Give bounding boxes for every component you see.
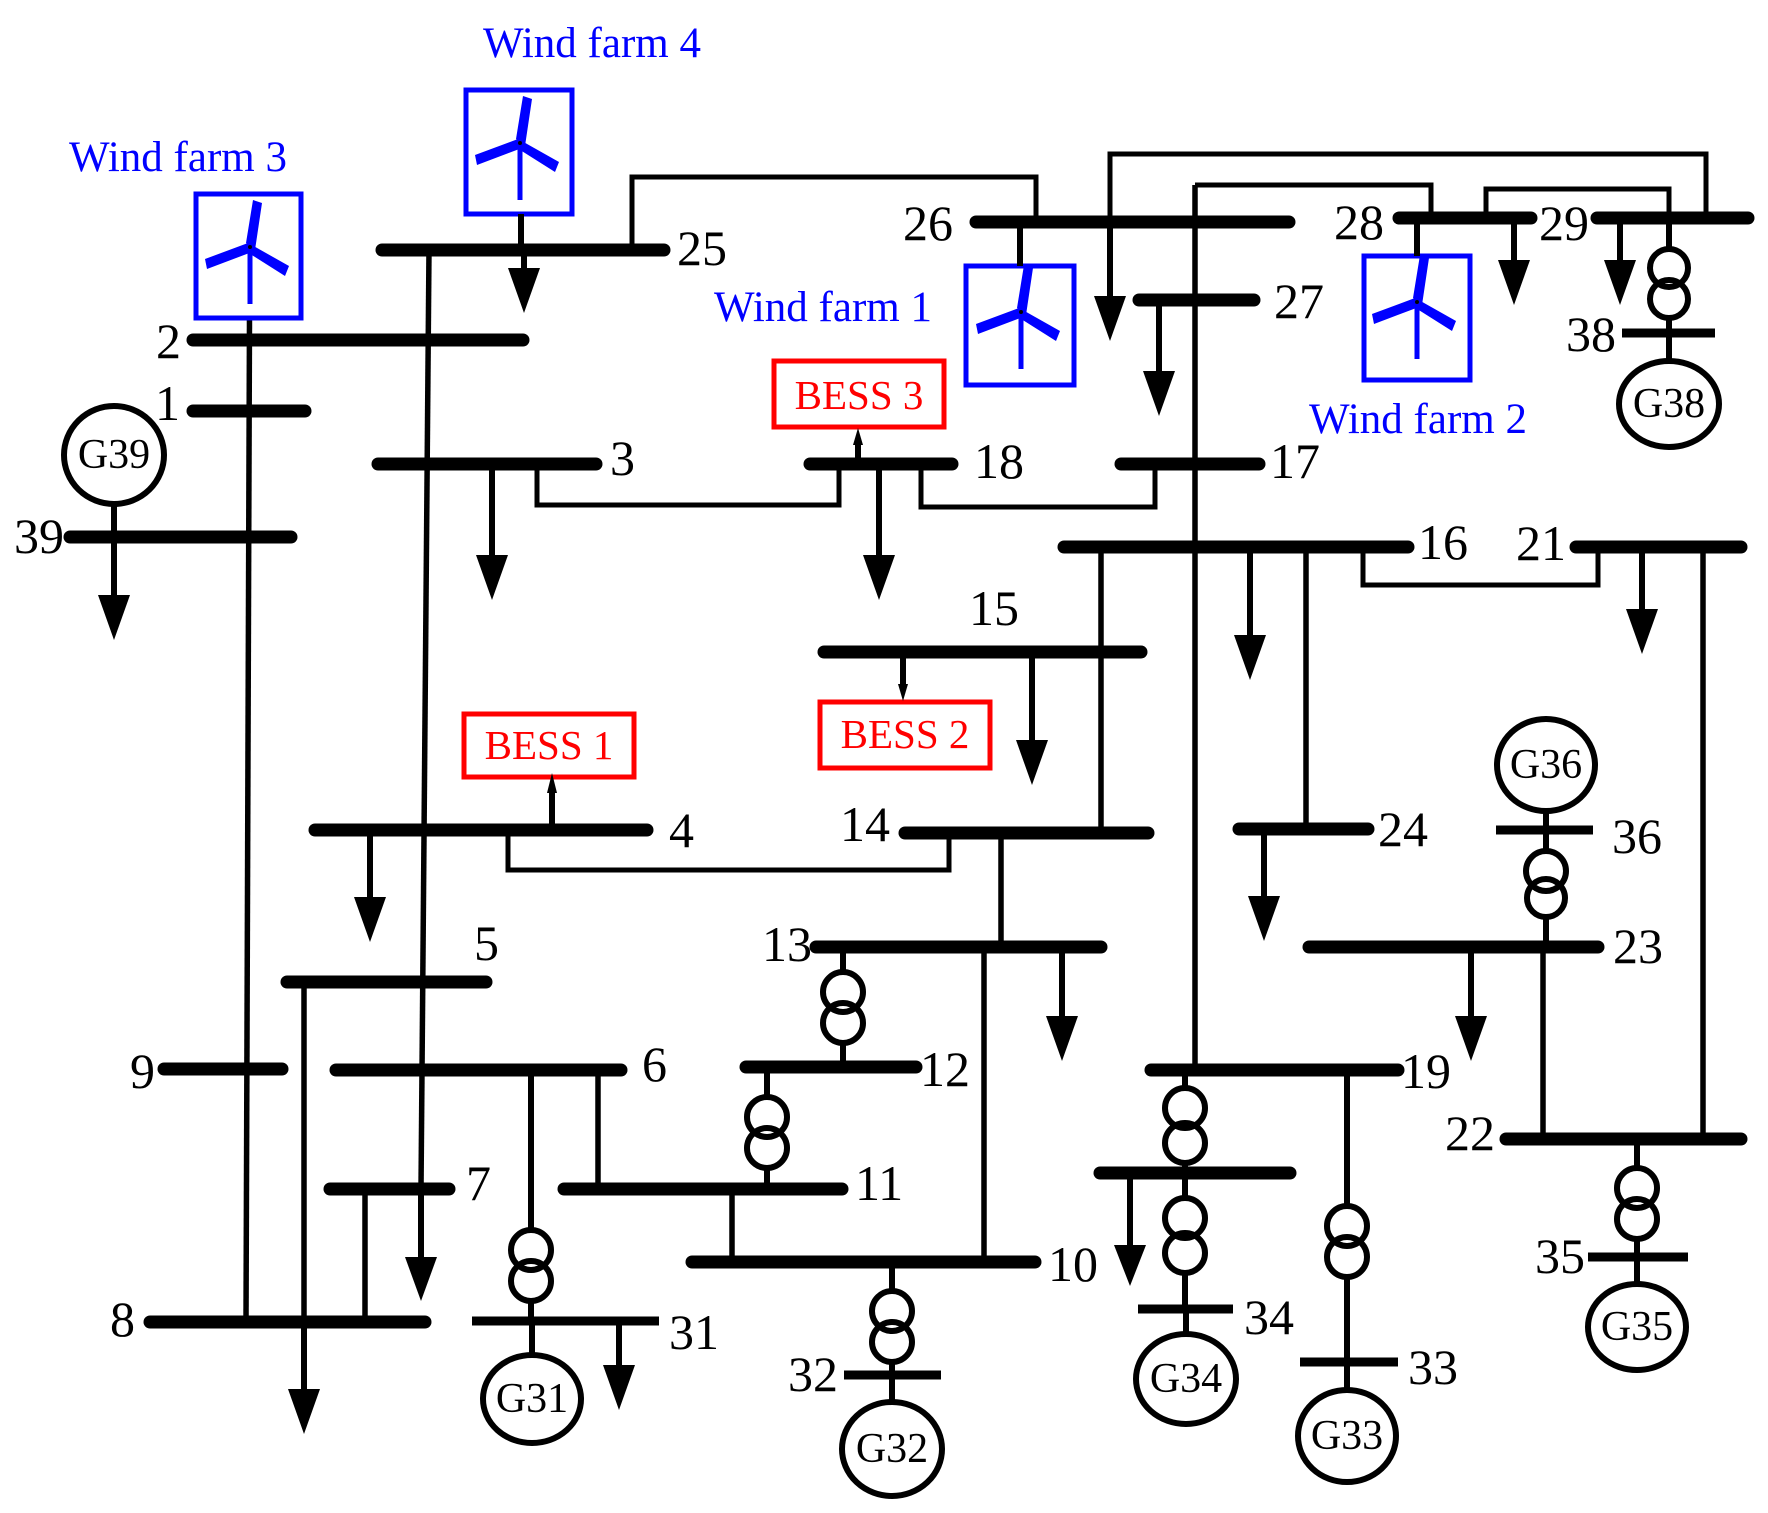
transformer 19-20 (1165, 1070, 1205, 1173)
wire 16-24 vertical (1303, 547, 1309, 829)
svg-text:Wind farm 3: Wind farm 3 (69, 134, 287, 181)
svg-text:15: 15 (969, 580, 1019, 636)
svg-text:26: 26 (903, 195, 953, 251)
bus 32 (788, 1346, 941, 1402)
bus 11 (564, 1155, 903, 1211)
BESS 3 (774, 361, 944, 464)
load at bus 13 (1046, 947, 1078, 1061)
bus 23 (1309, 918, 1663, 974)
svg-text:38: 38 (1566, 306, 1616, 362)
svg-text:24: 24 (1378, 801, 1428, 857)
svg-text:27: 27 (1274, 273, 1324, 329)
svg-text:G38: G38 (1633, 381, 1705, 427)
wire 26-28 route (1195, 185, 1431, 218)
svg-text:35: 35 (1535, 1228, 1585, 1284)
load at bus 25 (508, 250, 540, 313)
wire 5-8 vertical (301, 982, 307, 1322)
bus 9 (130, 1043, 282, 1099)
bus 31 (472, 1304, 719, 1360)
wind farm 3 (69, 134, 301, 318)
load at bus 27 (1143, 300, 1175, 416)
load at bus 39 (98, 537, 130, 640)
bus 19 (1151, 1043, 1451, 1099)
generator G31 (483, 1321, 581, 1443)
wire 18-17 route (921, 464, 1155, 507)
svg-text:G32: G32 (856, 1426, 928, 1472)
bus 33 (1300, 1339, 1458, 1395)
svg-text:31: 31 (669, 1304, 719, 1360)
bus 39 (14, 508, 291, 564)
svg-text:22: 22 (1445, 1105, 1495, 1161)
bus 16 (1064, 514, 1468, 570)
bus 4 (315, 802, 694, 858)
svg-text:7: 7 (466, 1155, 491, 1211)
svg-text:12: 12 (920, 1041, 970, 1097)
load at bus 15 (1016, 652, 1048, 785)
bus 29 (1539, 195, 1748, 251)
bus 6 (336, 1036, 667, 1092)
bus 21 (1516, 515, 1741, 571)
svg-text:34: 34 (1244, 1289, 1294, 1345)
generator G32 (842, 1375, 942, 1496)
bus 13 (762, 916, 1101, 972)
bus 24 (1239, 801, 1428, 857)
bus 12 (746, 1041, 970, 1097)
wire 2-1-39-9-8 vertical (246, 316, 250, 1322)
svg-text:13: 13 (762, 916, 812, 972)
load at bus 23 (1455, 947, 1487, 1061)
bus 26 (903, 195, 1289, 251)
svg-text:BESS 3: BESS 3 (795, 372, 924, 418)
svg-text:G35: G35 (1601, 1304, 1673, 1350)
svg-text:32: 32 (788, 1346, 838, 1402)
wire 16-15-14 vertical (1098, 547, 1104, 833)
svg-text:Wind farm 1: Wind farm 1 (714, 284, 932, 331)
transformer 29-38 (1650, 218, 1688, 333)
wire 7-8 vertical (362, 1189, 368, 1322)
generator G34 (1136, 1309, 1236, 1424)
transformer 19-33 (1327, 1070, 1367, 1362)
svg-text:21: 21 (1516, 515, 1566, 571)
svg-text:19: 19 (1401, 1043, 1451, 1099)
bus 5 (287, 915, 499, 982)
bus 22 (1445, 1105, 1741, 1161)
bus 10 (692, 1236, 1098, 1292)
wire 6-11 vertical (595, 1070, 601, 1189)
generator G39 (64, 406, 164, 537)
wire 13-10 vertical (981, 947, 987, 1262)
svg-text:3: 3 (610, 430, 635, 486)
load at bus 28 (1498, 218, 1530, 305)
svg-text:Wind farm 4: Wind farm 4 (483, 20, 701, 67)
wind farm 1 (714, 222, 1074, 385)
load at bus 29 (1604, 218, 1636, 305)
svg-text:16: 16 (1418, 514, 1468, 570)
bus 28 (1334, 194, 1531, 250)
svg-text:18: 18 (974, 433, 1024, 489)
wire 23-22 vertical (1540, 947, 1546, 1139)
load at bus 20 (1114, 1173, 1146, 1286)
svg-text:36: 36 (1612, 808, 1662, 864)
bus 17 (1121, 433, 1320, 489)
wire 4-14 route (508, 830, 949, 870)
generator G38 (1619, 333, 1719, 447)
generator G35 (1588, 1257, 1686, 1370)
load at bus 8 (288, 1322, 320, 1434)
load at bus 7 (405, 1189, 437, 1301)
wire 16-21 route (1363, 547, 1598, 585)
svg-text:Wind farm 2: Wind farm 2 (1309, 396, 1527, 443)
bus 36 (1496, 808, 1662, 864)
bus 15 (824, 580, 1141, 652)
bus 35 (1535, 1228, 1688, 1284)
bus 25 (382, 220, 727, 276)
load at bus 18 (863, 464, 895, 600)
load at bus 16 (1234, 547, 1266, 680)
wind farm 2 (1309, 218, 1527, 443)
svg-text:29: 29 (1539, 195, 1589, 251)
bus 8 (110, 1291, 425, 1347)
wire 25-2-3-4-5-6-7 vertical (421, 250, 429, 1189)
transformer 6-31 (511, 1070, 551, 1321)
svg-text:11: 11 (855, 1155, 903, 1211)
svg-text:4: 4 (669, 802, 694, 858)
transformer 22-35 (1617, 1139, 1657, 1257)
svg-text:G34: G34 (1150, 1356, 1222, 1402)
svg-text:2: 2 (156, 313, 181, 369)
svg-text:G33: G33 (1311, 1413, 1383, 1459)
load at bus 21 (1626, 547, 1658, 654)
wire 26-29 route (1110, 154, 1706, 222)
load at bus 31 (603, 1321, 635, 1410)
svg-text:8: 8 (110, 1291, 135, 1347)
wire 21-22 vertical (1700, 547, 1706, 1139)
transformer 20-34 (1165, 1173, 1205, 1309)
svg-text:6: 6 (642, 1036, 667, 1092)
transformer 13-12 (823, 947, 863, 1067)
svg-text:25: 25 (677, 220, 727, 276)
svg-text:23: 23 (1613, 918, 1663, 974)
wire 25-26 route (632, 177, 1036, 250)
wire 28-29 route (1486, 189, 1669, 218)
svg-text:G39: G39 (78, 432, 150, 478)
load at bus 26 (1094, 222, 1126, 341)
svg-text:G36: G36 (1510, 742, 1582, 788)
load at bus 4 (354, 830, 386, 942)
bus 1 (155, 375, 305, 431)
bus 3 (378, 430, 635, 486)
BESS 2 (820, 652, 990, 768)
bus 14 (840, 796, 1148, 852)
svg-text:33: 33 (1408, 1339, 1458, 1395)
bus 27 (1139, 273, 1324, 329)
bus 18 (810, 433, 1024, 489)
generator G36 (1497, 719, 1595, 830)
svg-text:1: 1 (155, 375, 180, 431)
bus 34 (1138, 1289, 1294, 1345)
svg-text:28: 28 (1334, 194, 1384, 250)
svg-text:10: 10 (1048, 1236, 1098, 1292)
bus 7 (330, 1155, 491, 1211)
load at bus 3 (476, 464, 508, 600)
wind farm 4 (466, 20, 701, 250)
load at bus 24 (1248, 829, 1280, 941)
transformer 36-23 (1526, 830, 1566, 947)
svg-text:39: 39 (14, 508, 64, 564)
wire 11-10 vertical (729, 1189, 735, 1262)
transformer 12-11 (747, 1067, 787, 1189)
wire 14-13 vertical (998, 833, 1004, 947)
svg-text:BESS 2: BESS 2 (841, 711, 970, 757)
svg-text:5: 5 (474, 915, 499, 971)
transformer 10-32 (872, 1262, 912, 1375)
generator G33 (1298, 1362, 1396, 1482)
bus 20 (1100, 1167, 1290, 1180)
svg-text:14: 14 (840, 796, 890, 852)
bus 2 (156, 313, 523, 369)
wire 28-26-27-17-16-19 vertical (1192, 185, 1198, 1070)
wire 3-18 route (537, 464, 839, 505)
svg-text:BESS 1: BESS 1 (485, 722, 614, 768)
BESS 1 (464, 714, 634, 830)
svg-text:9: 9 (130, 1043, 155, 1099)
bus 38 (1566, 306, 1715, 362)
svg-text:G31: G31 (496, 1376, 568, 1422)
